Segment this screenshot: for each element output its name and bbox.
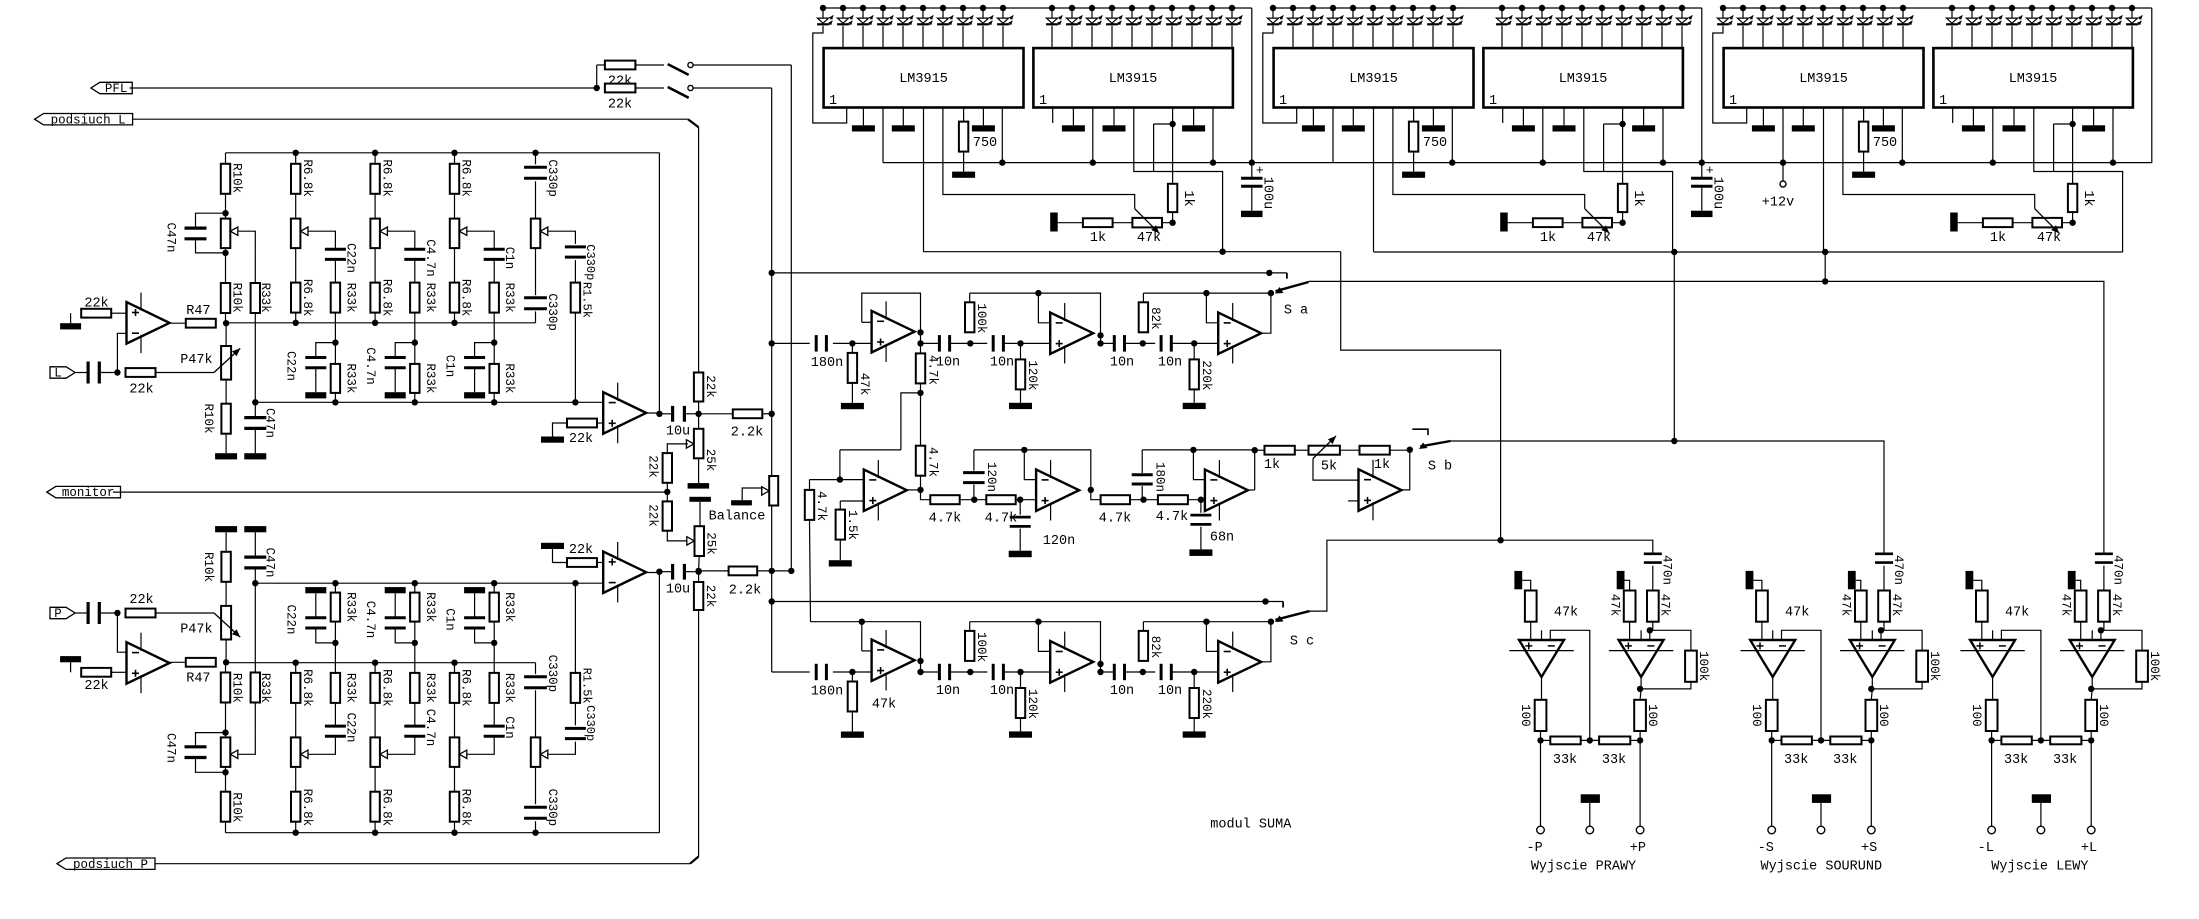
resistor 4.7k	[916, 393, 940, 477]
capacitor C4.7n	[385, 358, 406, 368]
wire LED cathode	[922, 26, 924, 48]
svg-text:S c: S c	[1290, 634, 1314, 649]
resistor R6.8k	[450, 673, 459, 703]
node out junction	[917, 669, 923, 675]
resistor 1.5k	[836, 501, 860, 540]
wire pin to bus	[1542, 108, 1544, 163]
svg-text:1k: 1k	[1374, 458, 1390, 473]
ground	[1183, 731, 1206, 737]
wire R33k to node	[334, 643, 336, 673]
label C4.7n	[363, 347, 377, 385]
svg-text:47k: 47k	[1137, 231, 1161, 246]
wire pin path	[1134, 108, 1223, 253]
ground	[2068, 571, 2076, 589]
svg-text:-P: -P	[1526, 841, 1542, 856]
wire 22k to node	[698, 402, 700, 414]
wire R47 node to P47k	[225, 323, 227, 346]
ground	[1848, 571, 1856, 589]
svg-text:4.7k: 4.7k	[985, 511, 1017, 526]
capacitor plate upper	[688, 483, 710, 489]
svg-text:-S: -S	[1758, 841, 1774, 856]
wire cap to ground	[474, 593, 476, 618]
label C47n	[263, 547, 277, 577]
LED D313	[1986, 8, 2002, 25]
wire pin path	[2034, 108, 2123, 253]
svg-text:C22n: C22n	[343, 712, 357, 742]
wire PFL line	[130, 87, 597, 89]
resistor 120k	[1016, 343, 1039, 390]
svg-text:470n: 470n	[1891, 555, 1905, 585]
resistor R6.8k	[291, 153, 300, 194]
svg-text:180n: 180n	[1153, 462, 1167, 492]
resistor 4.7k	[985, 495, 1017, 526]
wire to mid bus	[454, 313, 456, 323]
capacitor 100u	[1691, 163, 1724, 211]
wire res to pot	[225, 767, 227, 792]
resistor R33k	[251, 673, 260, 703]
LED D119	[1206, 8, 1222, 25]
wire EQ-L mid bus	[226, 322, 535, 324]
wire pin to 1k	[1172, 108, 1174, 184]
svg-text:podsiuch P: podsiuch P	[73, 858, 148, 872]
wire opamp out node	[646, 412, 659, 415]
wire	[1390, 449, 1410, 451]
wire out to pivot	[1262, 293, 1271, 333]
resistor 47k	[848, 343, 857, 383]
svg-text:47k: 47k	[1554, 606, 1578, 621]
capacitor C330p	[524, 298, 547, 309]
node rail junction	[1129, 5, 1135, 11]
resistor 100	[2085, 700, 2110, 741]
svg-text:33k: 33k	[1833, 753, 1857, 768]
LED D218	[1636, 8, 1652, 25]
node rail junction	[980, 5, 986, 11]
wire sum vertical A	[771, 88, 773, 476]
wire pot to R6.8k	[295, 703, 297, 738]
wire to mid terminal	[2040, 803, 2042, 826]
node rail junction	[1499, 5, 1505, 11]
label R33k	[343, 363, 357, 393]
svg-text:R47: R47	[186, 304, 210, 319]
resistor 33k	[1541, 737, 1581, 768]
wire LED cathode	[1951, 26, 1953, 48]
LED D212	[1516, 8, 1532, 25]
svg-text:100k: 100k	[1927, 651, 1941, 681]
wiper arrow 47k	[1585, 209, 1610, 234]
svg-text:10n: 10n	[990, 356, 1014, 371]
terminal mid	[1586, 826, 1594, 834]
LM3915 U1	[824, 48, 1024, 109]
wire sum vertical B	[790, 65, 792, 571]
resistor 100k	[1685, 651, 1710, 682]
wire pin to bus	[1451, 108, 1453, 163]
node bottom bus junction	[491, 399, 497, 405]
svg-text:R6.8k: R6.8k	[459, 279, 473, 317]
wire 22k to opamp	[111, 312, 126, 314]
wire op out	[1772, 677, 1774, 700]
potentiometer slider	[450, 219, 460, 249]
wire podsiuch L riser	[698, 127, 700, 372]
wire pin to lower rail	[923, 108, 925, 253]
terminal mid	[2037, 826, 2045, 834]
capacitor 120n	[963, 450, 998, 500]
wire inv riser	[1880, 630, 1882, 640]
resistor 33k	[1772, 737, 1812, 768]
wire R10k to node	[225, 663, 227, 673]
wire pin stub	[1802, 108, 1804, 126]
resistor 22k	[694, 582, 717, 610]
resistor 82k	[1139, 622, 1163, 661]
wire LED1 cathode	[1263, 26, 1297, 123]
svg-text:modul SUMA: modul SUMA	[1210, 818, 1292, 833]
wire S b output line	[1451, 441, 1885, 553]
wire switch to bus	[693, 64, 791, 66]
label C1n	[443, 608, 457, 631]
resistor 47k	[1756, 591, 1809, 622]
node junction	[1140, 497, 1146, 503]
node rail junction	[1880, 5, 1886, 11]
svg-text:1.5k: 1.5k	[845, 510, 859, 540]
node junction	[1017, 497, 1023, 503]
wire gnd to 47k	[1973, 580, 1982, 590]
wire pin to bus	[882, 108, 884, 163]
ground	[2082, 125, 2105, 131]
svg-text:R6.8k: R6.8k	[300, 669, 314, 707]
wire LED cathode	[962, 26, 964, 48]
svg-text:120n: 120n	[1043, 534, 1075, 549]
LED D213	[1536, 8, 1552, 25]
ground Balance wiper	[731, 488, 761, 505]
wire to mid terminal	[1589, 803, 1591, 826]
wire res to pot	[374, 194, 376, 219]
wire pin stub	[1193, 108, 1195, 126]
LED D116	[1146, 8, 1162, 25]
node rail junction	[1330, 5, 1336, 11]
node rail junction	[1270, 5, 1276, 11]
resistor R6.8k	[370, 283, 379, 313]
svg-text:R1.5k: R1.5k	[579, 668, 593, 704]
svg-text:podsiuch L: podsiuch L	[51, 113, 126, 127]
svg-text:C4.7n: C4.7n	[363, 347, 377, 385]
wire feedback rail S b seg2	[974, 450, 1091, 490]
resistor R10k	[221, 552, 230, 582]
LED D111	[1046, 8, 1062, 25]
op-amp S b stage 2	[1036, 460, 1079, 521]
wire	[1016, 500, 1036, 501]
svg-text:5k: 5k	[1321, 459, 1337, 474]
wire res to pot	[295, 767, 297, 792]
label R6.8k	[459, 159, 473, 197]
svg-text:R1.5k: R1.5k	[579, 282, 593, 318]
wire cap to node	[833, 671, 872, 673]
svg-text:100: 100	[2096, 704, 2110, 727]
capacitor C22n	[305, 618, 326, 628]
wire res to pot	[454, 194, 456, 219]
ground	[1422, 125, 1445, 131]
LED D29	[1427, 8, 1443, 25]
LED D17	[937, 8, 953, 25]
svg-text:+: +	[1256, 163, 1264, 178]
wire pot to R6.8k	[454, 703, 456, 738]
resistor R33k	[331, 593, 340, 622]
node rail junction	[2049, 5, 2055, 11]
switch S a blade	[1275, 282, 1309, 294]
node junction	[1017, 340, 1023, 346]
svg-text:C330p: C330p	[583, 244, 597, 280]
svg-text:22k: 22k	[608, 97, 632, 112]
resistor R33k	[410, 283, 419, 313]
node junction	[769, 340, 775, 346]
wire pin stub	[902, 108, 904, 126]
resistor 1k	[1533, 218, 1563, 246]
capacitor 68n	[1190, 500, 1234, 550]
wire	[1862, 739, 1872, 741]
wire cap to R33k	[493, 260, 495, 283]
resistor 100	[1518, 700, 1546, 731]
node bus junction	[372, 830, 378, 836]
wire 100k to inv	[1881, 630, 1922, 650]
wire out	[907, 489, 921, 491]
wire LED cathode	[1412, 26, 1414, 48]
ground mid terminal	[2032, 794, 2051, 803]
wire	[1130, 499, 1158, 501]
capacitor 10n	[1110, 335, 1134, 370]
svg-text:22k: 22k	[703, 585, 717, 608]
LED D113	[1086, 8, 1102, 25]
svg-text:PFL: PFL	[105, 82, 128, 96]
wire gnd to 47k	[2076, 580, 2081, 590]
resistor R10k	[221, 283, 230, 313]
resistor 2.2k	[699, 567, 762, 599]
node rail junction	[1820, 5, 1826, 11]
svg-text:LM3915: LM3915	[1109, 72, 1158, 87]
svg-text:33k: 33k	[2004, 753, 2028, 768]
LED D315	[2026, 8, 2042, 25]
node rail junction	[2009, 5, 2015, 11]
wire pin stub	[1502, 108, 1504, 124]
node junction	[695, 411, 701, 417]
LM3915 U6	[1933, 48, 2132, 109]
node junction	[491, 640, 497, 646]
wire node to R33k	[254, 253, 256, 283]
ground	[1189, 549, 1212, 556]
node junction	[1219, 249, 1225, 255]
wire cap to ground	[394, 593, 396, 618]
node out junction	[1097, 340, 1103, 346]
wire inv riser	[1649, 630, 1651, 640]
svg-text:+12v: +12v	[1762, 195, 1794, 210]
wire opamp out node	[646, 571, 659, 574]
wire LED cathode	[2051, 26, 2053, 48]
svg-text:82k: 82k	[1148, 307, 1162, 330]
svg-text:47k: 47k	[1785, 606, 1809, 621]
wire inv input	[117, 333, 126, 372]
resistor 1k	[1618, 184, 1645, 212]
node junction	[1988, 737, 1994, 743]
node rail junction	[1579, 5, 1585, 11]
label R10k	[230, 792, 244, 822]
svg-text:R33k: R33k	[258, 283, 272, 313]
resistor R10k	[221, 792, 230, 822]
node junction	[1637, 737, 1643, 743]
op-amp non-inverting	[1609, 630, 1673, 677]
svg-text:10n: 10n	[990, 684, 1014, 699]
node monitor junction	[664, 489, 670, 495]
LED D14	[877, 8, 893, 25]
node junction	[222, 729, 228, 735]
wire bypass rail S a	[772, 272, 1287, 274]
label S a	[1284, 303, 1308, 318]
wire	[960, 499, 987, 501]
svg-text:47k: 47k	[1839, 594, 1853, 617]
label R6.8k	[379, 669, 393, 707]
resistor 22k	[81, 668, 111, 694]
label R33k	[423, 283, 437, 313]
node junction	[332, 640, 338, 646]
wire LED cathode	[2071, 26, 2073, 48]
wire LED cathode	[1091, 26, 1093, 48]
resistor 100k	[965, 622, 988, 662]
capacitor C4.7n	[404, 249, 425, 259]
svg-text:750: 750	[1423, 136, 1447, 151]
resistor R10k	[221, 164, 230, 194]
wire pin to bus	[1001, 108, 1003, 163]
resistor R33k	[331, 283, 340, 313]
wire LED cathode	[1621, 26, 1623, 48]
wire	[1172, 671, 1218, 673]
wire to terminal	[1870, 740, 1872, 826]
ground	[1852, 172, 1875, 178]
resistor 4.7k	[1099, 495, 1131, 526]
label R33k	[343, 673, 357, 703]
ground	[1553, 125, 1576, 131]
node junction	[1587, 737, 1593, 743]
node out junction	[1097, 669, 1103, 675]
ground	[244, 453, 266, 459]
svg-text:25k: 25k	[703, 449, 717, 472]
wire op out	[1871, 677, 1872, 700]
node rail junction	[1760, 5, 1766, 11]
resistor 220k	[1190, 672, 1214, 719]
svg-text:S b: S b	[1428, 460, 1452, 475]
LED D16	[917, 8, 933, 25]
wire inv drop	[1206, 293, 1218, 323]
wire node to R33k	[334, 622, 336, 643]
resistor 47k	[1647, 591, 1672, 631]
wire out chain	[1091, 490, 1101, 500]
resistor R47	[186, 304, 216, 328]
wire pin to lower rail	[1373, 108, 1375, 253]
svg-text:C4.7n: C4.7n	[363, 601, 377, 639]
ground	[305, 392, 326, 398]
wire pin stub	[1762, 108, 1764, 126]
label R33k	[343, 592, 357, 622]
svg-text:R6.8k: R6.8k	[379, 789, 393, 827]
node sum junction	[788, 568, 794, 574]
wire meter tap pair2	[1673, 252, 1675, 441]
terminal podsiuch P	[57, 858, 155, 872]
wire pin stub	[1952, 108, 1954, 124]
svg-text:10n: 10n	[936, 684, 960, 699]
LED D23	[1307, 8, 1323, 25]
node junction	[1619, 220, 1625, 226]
wire pin branch	[1153, 124, 1155, 172]
svg-text:47k: 47k	[1608, 594, 1622, 617]
label C330p	[583, 244, 597, 280]
resistor R6.8k	[450, 153, 459, 194]
label R33k	[502, 592, 516, 622]
wire pin path	[1584, 108, 1673, 253]
wire 22k to opamp	[597, 562, 603, 564]
wire LED cathode	[902, 26, 904, 48]
resistor 47k	[2059, 591, 2087, 622]
node rail junction	[1639, 5, 1645, 11]
wire node to cap	[475, 343, 495, 358]
LM3915 U5	[1724, 48, 1924, 109]
node rail junction	[1720, 5, 1726, 11]
op-amp inverting	[1741, 630, 1805, 677]
terminal +L	[2081, 826, 2097, 856]
capacitor C47n	[244, 404, 266, 429]
capacitor C1n	[484, 249, 505, 259]
node junction	[2038, 737, 2044, 743]
wire LED cathode	[1171, 26, 1173, 48]
wire inv feedback	[1550, 630, 1590, 740]
resistor 22k	[567, 419, 597, 448]
node R47 output junction	[223, 659, 229, 665]
ground	[892, 125, 915, 131]
wire 25k to node	[698, 556, 701, 571]
wire inv input	[117, 613, 126, 652]
LED D28	[1407, 8, 1423, 25]
svg-text:Wyjscie PRAWY: Wyjscie PRAWY	[1531, 860, 1636, 875]
svg-text:100u: 100u	[1260, 177, 1275, 209]
op-amp stage 3	[1218, 632, 1261, 693]
node junction	[1140, 669, 1146, 675]
resistor R6.8k	[450, 283, 459, 313]
wire inv feedback	[1782, 630, 1822, 740]
wire to mid bus	[454, 663, 456, 673]
capacitor C1n	[464, 358, 485, 368]
wire cap to pot	[535, 181, 537, 218]
wire pin stub	[1072, 108, 1074, 126]
svg-text:1k: 1k	[1090, 231, 1106, 246]
label R33k	[258, 673, 272, 703]
LED D26	[1367, 8, 1383, 25]
potentiometer P47k	[180, 606, 231, 640]
node bus junction	[532, 830, 538, 836]
wire to terminal	[1991, 740, 1993, 826]
wire 1k to pot	[2062, 212, 2073, 223]
node junction	[967, 669, 973, 675]
svg-text:120k: 120k	[1025, 360, 1039, 390]
wire pin stub	[982, 108, 984, 126]
op-amp S b stage 3	[1205, 460, 1248, 521]
wire pin stub	[862, 108, 864, 126]
node junction	[1191, 669, 1197, 675]
node junction	[1637, 686, 1643, 692]
wire EQ-L top bus	[226, 152, 660, 154]
capacitor C1n	[464, 618, 485, 628]
svg-text:22k: 22k	[646, 504, 660, 527]
node junction B	[917, 487, 923, 493]
wire pin stub	[1113, 108, 1115, 126]
ground	[1241, 211, 1263, 217]
node junction	[1822, 278, 1828, 284]
wire pin to bus	[2112, 108, 2114, 163]
potentiometer 5k	[1309, 446, 1340, 475]
svg-text:22k: 22k	[703, 375, 717, 398]
